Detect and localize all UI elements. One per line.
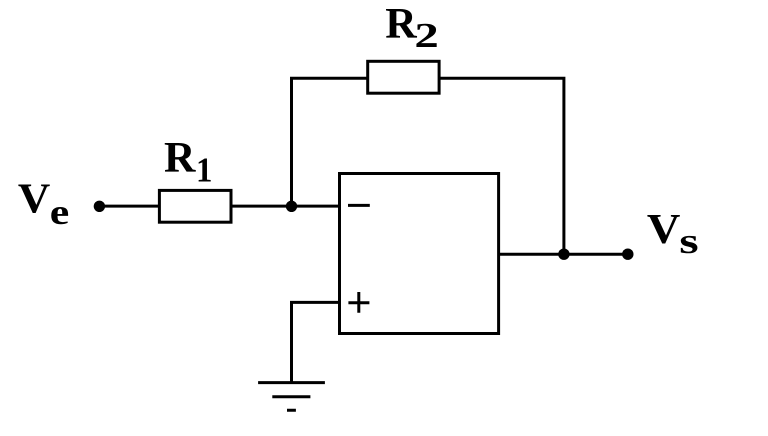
svg-text:1: 1 (196, 150, 212, 189)
resistor R2 (368, 61, 439, 93)
node B (output junction dot) (558, 249, 569, 260)
label Ve (18, 177, 69, 233)
svg-text:V: V (18, 177, 50, 223)
node A (junction dot at inverting input) (286, 201, 297, 212)
ground (258, 383, 325, 411)
node Vs (output terminal dot) (622, 249, 633, 260)
svg-text:e: e (50, 192, 70, 232)
op-amp U1 (340, 174, 499, 334)
wire node A up to R2 (292, 78, 368, 206)
svg-text:s: s (679, 221, 698, 261)
label R2 (385, 0, 439, 55)
label R1 (164, 134, 212, 190)
svg-text:R: R (164, 134, 196, 182)
wire input terminal to R1 (99, 205, 159, 208)
wire op-amp + input to ground (292, 302, 340, 382)
node Ve (input terminal dot) (94, 201, 105, 212)
svg-text:2: 2 (414, 16, 438, 55)
label Vs (647, 207, 699, 261)
op-amp non-inverting pin label (plus) (348, 292, 369, 313)
svg-text:R: R (385, 0, 417, 48)
wire R1 to op-amp inverting input (231, 205, 340, 208)
svg-text:V: V (647, 207, 681, 253)
op-amp inverting pin label (minus) (348, 204, 370, 207)
wire R2 down to output node (439, 78, 564, 254)
wire op-amp output to Vs terminal (499, 253, 628, 256)
resistor R1 (159, 190, 231, 222)
